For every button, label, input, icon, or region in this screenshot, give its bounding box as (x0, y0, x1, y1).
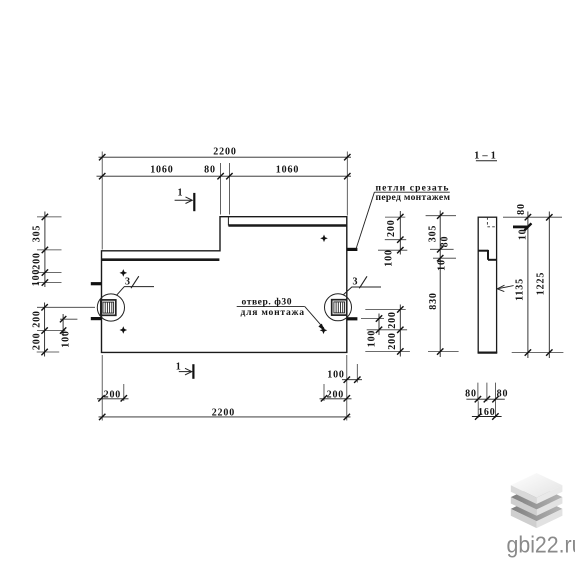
section loop mark (thick) (513, 225, 528, 228)
bottom extension lines (102, 355, 357, 421)
svg-text:305: 305 (428, 225, 439, 243)
svg-text:отвер. ф30: отвер. ф30 (242, 296, 292, 307)
svg-text:200: 200 (386, 219, 397, 237)
note: петли срезать перед монтажем (356, 183, 450, 249)
svg-text:80: 80 (497, 388, 509, 399)
svg-text:1060: 1060 (276, 164, 299, 175)
dimension 100 bottom-right (327, 370, 362, 383)
callout 3 left (117, 276, 155, 295)
svg-text:3: 3 (125, 276, 131, 287)
section inner chain 80/10/1135 (515, 203, 532, 358)
logo slab 2 (511, 485, 563, 516)
dimension 80/80 section bottom (465, 388, 508, 402)
section step lines (478, 250, 496, 260)
lifting loop right upper (347, 248, 358, 251)
mounting hole right (circle + hatched square) (325, 294, 352, 321)
note: отвер. ф30 для монтажа (237, 296, 325, 331)
svg-text:100: 100 (327, 370, 345, 381)
far top edge left (thick) (102, 258, 220, 261)
far top edge right (thick) (228, 224, 346, 227)
marker star upper-left (120, 269, 128, 277)
svg-text:200: 200 (387, 332, 398, 350)
section outline (478, 217, 498, 352)
svg-text:100: 100 (31, 269, 42, 287)
svg-text:100: 100 (60, 330, 71, 348)
svg-text:10: 10 (437, 259, 448, 271)
svg-text:80: 80 (439, 236, 450, 248)
svg-text:200: 200 (32, 333, 43, 351)
dimension 2200 bottom (99, 408, 351, 420)
left upper dimension chain 305/200/100 (31, 212, 62, 288)
section mark 1 top (175, 188, 195, 212)
svg-text:3: 3 (353, 276, 359, 287)
callout 3 right (344, 276, 382, 294)
panel outline (front view) (102, 217, 347, 353)
svg-text:1135: 1135 (515, 278, 526, 301)
mounting hole left (circle + hatched square) (97, 294, 124, 321)
small step vertical (227, 217, 229, 226)
svg-text:80: 80 (204, 164, 216, 175)
logo gbi22.ru (507, 473, 575, 558)
svg-text:830: 830 (428, 292, 439, 310)
svg-text:160: 160 (478, 407, 496, 418)
left lower dimension chain 200/200 (32, 303, 96, 357)
right inner upper chain 200/100 (378, 211, 407, 267)
marker star lower-right (320, 327, 328, 335)
svg-text:80: 80 (465, 388, 477, 399)
dimension 2200 top (99, 147, 352, 161)
marker star lower-left (120, 326, 128, 334)
right outer chain 305/80/10/830 (426, 211, 459, 358)
svg-text:200: 200 (327, 389, 345, 400)
svg-text:1060: 1060 (150, 164, 173, 175)
lifting loop left upper (91, 282, 102, 285)
dimension 200 bottom-left (97, 389, 129, 401)
svg-text:200: 200 (32, 252, 43, 270)
svg-text:2200: 2200 (213, 147, 236, 158)
section bottom extension lines (478, 383, 496, 418)
svg-text:80: 80 (516, 203, 527, 215)
section pointer arrow (497, 285, 513, 291)
left secondary dimension 100 (60, 314, 78, 348)
section hidden recess (dashed) (487, 217, 496, 227)
marker star upper-right (320, 235, 328, 243)
svg-text:10: 10 (518, 228, 529, 240)
right inner lower chain 200/200 (365, 305, 410, 357)
lifting loop left lower (91, 317, 102, 320)
section extension lines (503, 217, 563, 352)
logo slab 3 (511, 497, 563, 528)
svg-text:305: 305 (32, 225, 43, 243)
svg-text:200: 200 (387, 311, 398, 329)
dimension 200 bottom-right (320, 389, 352, 401)
svg-text:100: 100 (367, 330, 378, 348)
svg-text:1–1: 1–1 (474, 150, 499, 161)
svg-text:200: 200 (32, 310, 43, 328)
svg-text:1225: 1225 (536, 272, 547, 295)
dimension 160 section bottom (472, 407, 502, 420)
top extension lines (102, 152, 347, 250)
svg-text:1: 1 (176, 362, 182, 373)
svg-text:для монтажа: для монтажа (241, 307, 305, 318)
lifting loop right lower (347, 317, 358, 320)
section title 1-1 (474, 150, 499, 161)
dimension 1060 / 80 / 1060 (97, 164, 352, 179)
section outer chain 1225 (536, 212, 553, 359)
svg-text:1: 1 (178, 188, 184, 199)
section mark 1 bottom (176, 362, 194, 379)
svg-text:gbi22.ru: gbi22.ru (507, 532, 575, 558)
svg-text:перед монтажем: перед монтажем (376, 192, 451, 203)
right secondary dimension 100 (361, 314, 384, 348)
svg-text:100: 100 (384, 249, 395, 267)
logo slab 1 (511, 473, 563, 504)
svg-text:2200: 2200 (212, 408, 235, 419)
svg-text:200: 200 (104, 389, 122, 400)
